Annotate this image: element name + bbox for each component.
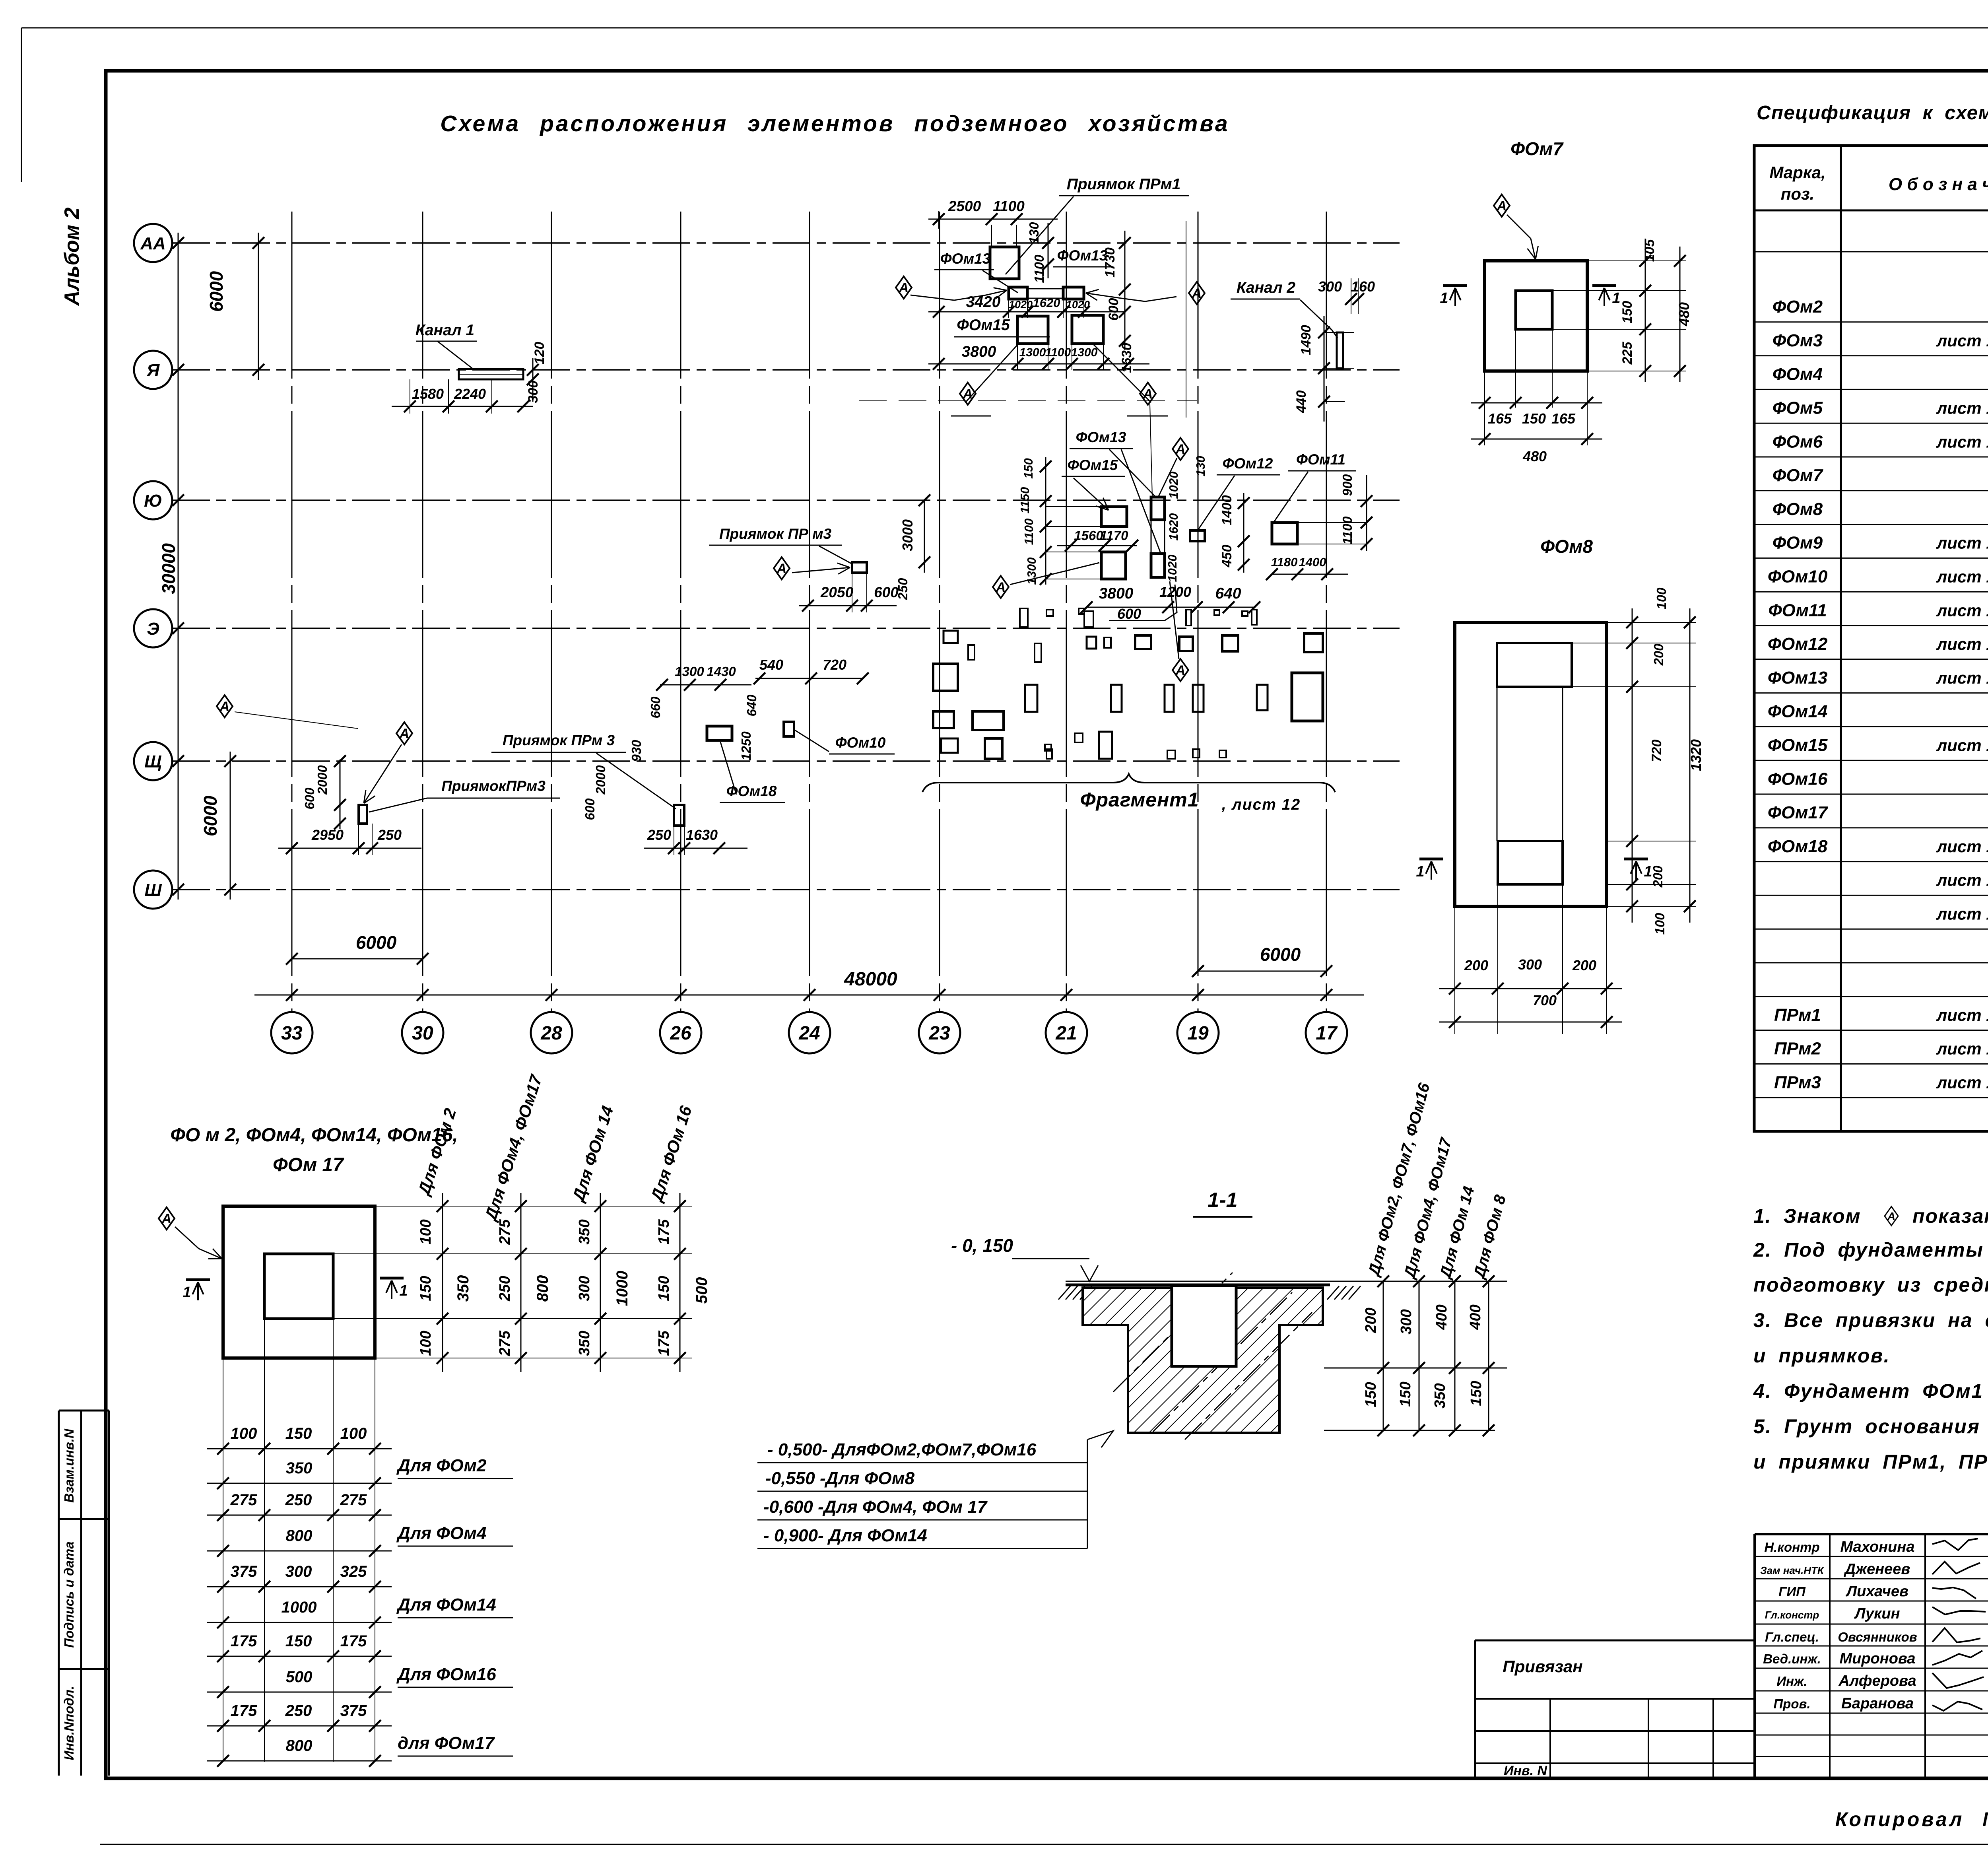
svg-text:Зам нач.НТК: Зам нач.НТК <box>1760 1564 1825 1576</box>
svg-text:2950: 2950 <box>311 827 344 843</box>
svg-text:- 0, 150: - 0, 150 <box>951 1235 1013 1256</box>
svg-text:лист 12: лист 12 <box>1936 398 1988 417</box>
ground line <box>1066 1281 1376 1282</box>
svg-text:350: 350 <box>286 1459 313 1477</box>
lower dim ladder <box>207 1448 392 1449</box>
svg-text:ФОм4: ФОм4 <box>1773 365 1823 384</box>
svg-text:275: 275 <box>230 1491 257 1509</box>
svg-text:лист 13: лист 13 <box>1936 736 1988 754</box>
svg-text:подготовку из среднезернисто: подготовку из среднезернистого песка тол… <box>1753 1274 1988 1296</box>
svg-text:2000: 2000 <box>315 765 330 795</box>
svg-text:Дженеев: Дженеев <box>1844 1561 1910 1578</box>
svg-text:300: 300 <box>285 1563 312 1580</box>
svg-text:А: А <box>996 580 1006 595</box>
privyazan box <box>1475 1640 1755 1642</box>
FOm15 foundations <box>1017 316 1048 344</box>
FOm7 inner pocket <box>1516 291 1552 329</box>
svg-text:1020: 1020 <box>1066 299 1090 311</box>
svg-text:930: 930 <box>629 740 644 762</box>
svg-text:1100: 1100 <box>1340 516 1355 545</box>
svg-text:Взам.инв.N: Взам.инв.N <box>62 1428 76 1503</box>
svg-text:- 0,900- Для ФОм14: - 0,900- Для ФОм14 <box>763 1526 927 1545</box>
column circles <box>271 1012 313 1053</box>
small foundation col26 <box>784 722 794 736</box>
svg-text:165: 165 <box>1488 410 1512 427</box>
svg-text:250: 250 <box>377 827 402 843</box>
svg-text:ФОм11: ФОм11 <box>1296 451 1345 468</box>
svg-text:105: 105 <box>1642 239 1657 262</box>
FOm8 inner top pocket <box>1497 643 1572 687</box>
svg-text:Канал 1: Канал 1 <box>415 322 474 339</box>
svg-text:200: 200 <box>1363 1308 1379 1333</box>
svg-text:Канал 2: Канал 2 <box>1237 279 1295 296</box>
svg-text:1560: 1560 <box>1074 528 1103 543</box>
svg-text:лист 16: лист 16 <box>1936 1039 1988 1058</box>
svg-text:Ю: Ю <box>144 491 162 511</box>
svg-text:ФОм13: ФОм13 <box>1057 247 1108 264</box>
svg-text:120: 120 <box>532 342 547 365</box>
svg-text:600: 600 <box>1106 298 1121 321</box>
svg-text:Спецификация к схеме располож: Спецификация к схеме расположения элемен… <box>1757 102 1988 124</box>
pocket outline <box>1172 1286 1236 1366</box>
bottom dimension 6000 right <box>1198 971 1326 972</box>
svg-text:Ш: Ш <box>144 880 162 900</box>
svg-text:ФОм12: ФОм12 <box>1223 455 1273 472</box>
svg-text:ПРм2: ПРм2 <box>1774 1039 1821 1059</box>
aux line at y1008 <box>859 400 1197 401</box>
svg-text:Инв.Nподл.: Инв.Nподл. <box>62 1686 76 1760</box>
svg-text:3000: 3000 <box>899 519 916 551</box>
svg-text:3420: 3420 <box>966 293 1001 311</box>
svg-text:Подпись и дата: Подпись и дата <box>62 1541 76 1648</box>
svg-text:Щ: Щ <box>144 752 162 771</box>
leaders to lower diamonds <box>965 344 1018 402</box>
svg-text:720: 720 <box>1649 740 1664 762</box>
svg-text:лист 12: лист 12 <box>1936 432 1988 451</box>
PRm3 pit col26 <box>674 805 684 826</box>
svg-text:400: 400 <box>1433 1304 1450 1330</box>
FOm8 right dims <box>1632 608 1633 923</box>
svg-text:ФОм15: ФОм15 <box>957 317 1010 334</box>
diamond A left <box>896 276 912 299</box>
svg-text:ФОм8: ФОм8 <box>1773 499 1823 519</box>
svg-text:3. Все привязки на схеме д: 3. Все привязки на схеме даны к внутренн… <box>1753 1309 1988 1331</box>
svg-text:Копировал Муратова: Копировал Муратова <box>1835 1808 1988 1830</box>
svg-text:1. Знаком: 1. Знаком <box>1753 1205 1861 1227</box>
svg-text:Гл.констр: Гл.констр <box>1765 1609 1819 1621</box>
svg-text:3800: 3800 <box>1099 585 1134 602</box>
fundament chain row <box>1009 287 1027 299</box>
svg-text:1730: 1730 <box>1103 247 1118 278</box>
svg-text:500: 500 <box>693 1277 711 1304</box>
svg-text:Инж.: Инж. <box>1776 1674 1807 1688</box>
svg-text:100: 100 <box>1652 913 1667 935</box>
svg-text:4. Фундамент ФОм1 разработан: 4. Фундамент ФОм1 разработан на листе 20… <box>1753 1380 1988 1402</box>
svg-text:1: 1 <box>1440 290 1448 307</box>
diamond A lower-right <box>1140 383 1156 405</box>
svg-text:Для ФОм14: Для ФОм14 <box>396 1595 496 1615</box>
detail inner pocket <box>264 1254 333 1319</box>
svg-text:24: 24 <box>798 1023 820 1044</box>
svg-text:150: 150 <box>656 1276 672 1301</box>
svg-text:1490: 1490 <box>1299 325 1314 355</box>
svg-text:Для ФОм2: Для ФОм2 <box>396 1456 487 1475</box>
svg-text:150: 150 <box>417 1276 434 1301</box>
diamond A below <box>1173 659 1188 681</box>
svg-text:ФОм2: ФОм2 <box>1773 297 1823 317</box>
svg-text:150: 150 <box>1021 458 1035 479</box>
svg-text:400: 400 <box>1467 1304 1484 1330</box>
svg-text:ФОм14: ФОм14 <box>1768 702 1828 721</box>
svg-text:150: 150 <box>285 1425 312 1442</box>
svg-text:1400: 1400 <box>1299 555 1326 569</box>
axis circles <box>134 224 172 262</box>
svg-text:150: 150 <box>1397 1381 1414 1407</box>
svg-text:-0,600 -Для ФОм4, ФОм 17: -0,600 -Для ФОм4, ФОм 17 <box>763 1497 988 1517</box>
svg-text:ФОм3: ФОм3 <box>1773 331 1823 350</box>
detail section marks <box>186 1278 210 1281</box>
FOm13 vertical chain <box>1151 497 1165 520</box>
svg-text:Лукин: Лукин <box>1854 1605 1900 1622</box>
leader arrows from A diamonds <box>911 295 986 300</box>
svg-text:1: 1 <box>399 1282 408 1299</box>
title block verticals <box>1753 1534 1756 1778</box>
svg-text:Фрагмент1: Фрагмент1 <box>1080 789 1199 811</box>
svg-text:Вед.инж.: Вед.инж. <box>1763 1652 1821 1666</box>
svg-text:А: А <box>161 1211 172 1226</box>
svg-text:28: 28 <box>540 1023 562 1044</box>
svg-text:48000: 48000 <box>844 969 897 990</box>
svg-text:1150: 1150 <box>1018 487 1032 514</box>
svg-text:ФОм8: ФОм8 <box>1540 536 1593 557</box>
svg-text:450: 450 <box>1219 545 1235 568</box>
svg-text:17: 17 <box>1316 1023 1338 1044</box>
svg-text:Лихачев: Лихачев <box>1845 1583 1908 1600</box>
svg-text:ФОм6: ФОм6 <box>1773 432 1823 451</box>
svg-text:лист 13: лист 13 <box>1936 567 1988 586</box>
svg-text:300: 300 <box>1518 956 1542 973</box>
svg-text:ПриямокПРм3: ПриямокПРм3 <box>441 778 546 794</box>
svg-text:600: 600 <box>1117 606 1141 622</box>
svg-text:О б о з н а ч е н и е: О б о з н а ч е н и е <box>1889 175 1988 194</box>
svg-text:800: 800 <box>534 1275 551 1302</box>
svg-text:1300: 1300 <box>1019 346 1046 359</box>
axis lines <box>172 242 1400 244</box>
title block top border <box>1755 1533 1988 1535</box>
svg-text:Альбом 2: Альбом 2 <box>60 208 83 307</box>
diamond A right <box>1189 282 1205 304</box>
svg-text:640: 640 <box>1215 585 1241 602</box>
svg-text:1300: 1300 <box>1071 346 1098 359</box>
svg-text:130: 130 <box>1194 456 1208 476</box>
svg-text:350: 350 <box>576 1219 593 1244</box>
svg-text:100: 100 <box>340 1425 367 1442</box>
signature rows <box>1755 1556 1988 1557</box>
svg-text:1-1: 1-1 <box>1208 1189 1237 1212</box>
svg-text:3800: 3800 <box>962 343 996 360</box>
specification table frame <box>1754 146 1988 1131</box>
FOm7 plan square <box>1485 261 1587 371</box>
svg-text:150: 150 <box>1620 301 1635 324</box>
svg-text:лист 12: лист 12 <box>1936 635 1988 653</box>
svg-text:Пров.: Пров. <box>1773 1696 1810 1711</box>
svg-text:6000: 6000 <box>206 271 227 312</box>
bottom dimension 6000 left <box>292 958 423 960</box>
svg-text:5. Грунт основания под фун: 5. Грунт основания под фундаменты под об… <box>1753 1415 1988 1438</box>
svg-text:- 0,500- ДляФОм2,ФОм7,ФОм16: - 0,500- ДляФОм2,ФОм7,ФОм16 <box>767 1440 1037 1459</box>
lower dim ladder verticals <box>223 1358 223 1762</box>
svg-text:Приямок ПР м3: Приямок ПР м3 <box>719 526 832 542</box>
svg-text:1430: 1430 <box>707 664 736 679</box>
svg-text:ФОм13: ФОм13 <box>1076 429 1126 445</box>
svg-text:Гл.спец.: Гл.спец. <box>1765 1630 1819 1644</box>
PRm3 pit col33 <box>359 805 367 824</box>
svg-text:250: 250 <box>285 1491 312 1509</box>
diamond A above chain <box>1150 404 1152 496</box>
left margin stamp boxes <box>59 1410 109 1412</box>
svg-text:250: 250 <box>647 827 671 843</box>
ground hatch left <box>1058 1286 1070 1300</box>
svg-text:1180: 1180 <box>1271 555 1298 569</box>
svg-text:130: 130 <box>1027 222 1041 244</box>
svg-text:500: 500 <box>286 1668 313 1686</box>
svg-text:100: 100 <box>417 1331 434 1356</box>
left vertical dimension 6000 Shch-Sh <box>230 752 231 900</box>
svg-text:275: 275 <box>497 1219 513 1245</box>
svg-text:1000: 1000 <box>282 1599 317 1616</box>
svg-text:300: 300 <box>576 1276 593 1301</box>
svg-text:ПРм1: ПРм1 <box>1774 1005 1821 1025</box>
svg-text:Для ФОм16: Для ФОм16 <box>396 1665 496 1684</box>
svg-text:175: 175 <box>340 1632 367 1650</box>
svg-text:ФОм7: ФОм7 <box>1510 138 1564 159</box>
svg-text:Марка,: Марка, <box>1769 163 1825 182</box>
svg-text:1630: 1630 <box>1119 343 1134 373</box>
sheet outer thin border <box>21 27 1988 29</box>
svg-text:200: 200 <box>1572 957 1596 973</box>
Kanal 1 dimensions <box>392 406 533 407</box>
svg-text:и приямки ПРм1, ПРм3 уплотн: и приямки ПРм1, ПРм3 уплотнить до Кск = … <box>1753 1451 1988 1473</box>
svg-text:1100: 1100 <box>993 198 1025 214</box>
svg-text:1020: 1020 <box>1009 299 1033 311</box>
svg-text:Н.контр: Н.контр <box>1764 1540 1819 1554</box>
dimension 2500 1100 <box>928 219 1058 220</box>
svg-text:175: 175 <box>656 1219 672 1244</box>
svg-text:Овсянников: Овсянников <box>1838 1630 1917 1644</box>
svg-text:А: А <box>899 280 909 295</box>
svg-text:480: 480 <box>1676 302 1692 326</box>
svg-text:640: 640 <box>744 694 759 717</box>
svg-text:поз.: поз. <box>1781 185 1814 203</box>
svg-text:350: 350 <box>1432 1383 1448 1408</box>
svg-text:А: А <box>963 387 973 402</box>
svg-text:26: 26 <box>670 1023 691 1044</box>
svg-text:Махонина: Махонина <box>1840 1539 1915 1555</box>
svg-text:23: 23 <box>928 1023 950 1044</box>
svg-text:200: 200 <box>1650 865 1665 888</box>
svg-text:АА: АА <box>140 234 166 253</box>
svg-text:ФОм11: ФОм11 <box>1768 600 1827 620</box>
svg-text:Приямок ПРм1: Приямок ПРм1 <box>1067 176 1181 193</box>
FOm7 extension lines <box>1515 329 1516 408</box>
svg-text:375: 375 <box>231 1563 257 1580</box>
section right dims <box>1324 1368 1507 1369</box>
Fragment 1 brace <box>922 774 1335 792</box>
FOm7 bottom dims <box>1471 402 1602 404</box>
Priyamok PRm1 pit <box>990 247 1019 279</box>
svg-text:1320: 1320 <box>1688 739 1704 771</box>
svg-text:165: 165 <box>1551 410 1576 427</box>
svg-text:1300: 1300 <box>675 664 704 679</box>
svg-text:ФОм15: ФОм15 <box>1768 735 1828 755</box>
svg-text:А: А <box>1175 442 1186 457</box>
svg-text:350: 350 <box>576 1331 593 1356</box>
svg-text:2000: 2000 <box>593 765 608 795</box>
svg-text:1250: 1250 <box>739 731 753 761</box>
svg-text:150: 150 <box>285 1632 312 1650</box>
svg-text:лист 13: лист 13 <box>1936 837 1988 856</box>
svg-text:160: 160 <box>1351 278 1375 295</box>
svg-text:720: 720 <box>823 657 846 673</box>
svg-text:А: А <box>1143 387 1153 402</box>
svg-text:175: 175 <box>231 1632 257 1650</box>
FOm8 inner verticals <box>1497 687 1498 841</box>
svg-text:ФОм10: ФОм10 <box>835 734 886 751</box>
FOm8 plan rectangle <box>1455 622 1607 906</box>
diamond A col24 <box>774 557 790 579</box>
svg-text:ГИП: ГИП <box>1778 1584 1806 1599</box>
svg-text:175: 175 <box>231 1702 257 1720</box>
svg-text:2. Под фундаменты под обор: 2. Под фундаменты под оборудование выпол… <box>1753 1239 1988 1261</box>
specification table rows <box>1754 321 1988 323</box>
column lines <box>291 212 293 1011</box>
svg-text:600: 600 <box>874 584 899 600</box>
Kanal 2 channel bar <box>1337 332 1343 368</box>
svg-text:Привязан: Привязан <box>1503 1657 1582 1676</box>
detail diamond A <box>159 1207 175 1230</box>
svg-text:250: 250 <box>895 578 910 600</box>
svg-text:21: 21 <box>1055 1023 1077 1044</box>
svg-text:2500: 2500 <box>948 198 981 214</box>
dimension 3800 row <box>928 363 1149 365</box>
svg-text:150: 150 <box>1363 1382 1379 1407</box>
svg-text:300: 300 <box>1398 1309 1415 1334</box>
svg-text:Э: Э <box>147 619 159 639</box>
svg-text:175: 175 <box>656 1330 672 1356</box>
svg-text:150: 150 <box>1468 1381 1485 1406</box>
svg-text:800: 800 <box>286 1737 313 1754</box>
svg-text:33: 33 <box>281 1023 303 1044</box>
svg-text:лист 15: лист 15 <box>1936 1006 1988 1024</box>
svg-text:2050: 2050 <box>820 584 854 600</box>
svg-text:440: 440 <box>1294 391 1309 414</box>
svg-text:375: 375 <box>340 1702 367 1720</box>
svg-text:700: 700 <box>1533 992 1557 1008</box>
svg-text:1100: 1100 <box>1022 519 1036 545</box>
svg-text:1170: 1170 <box>1100 528 1129 543</box>
svg-text:ФОм7: ФОм7 <box>1773 466 1824 485</box>
FOm15 mid foundations <box>1101 507 1127 527</box>
left vertical dimension 6000 AA-Ya <box>258 233 259 380</box>
bottom dimension 48000 <box>254 995 1364 996</box>
svg-text:275: 275 <box>497 1330 513 1356</box>
svg-text:А: А <box>1175 663 1186 678</box>
svg-text:лист 12: лист 12 <box>1936 534 1988 552</box>
svg-text:100: 100 <box>231 1425 257 1442</box>
svg-text:ФОм12: ФОм12 <box>1768 634 1828 654</box>
svg-text:600: 600 <box>582 798 597 820</box>
dim 3800 1200 640 600 row <box>1087 607 1254 608</box>
svg-text:1580: 1580 <box>412 386 444 402</box>
svg-text:1: 1 <box>1416 863 1424 880</box>
svg-text:350: 350 <box>454 1275 472 1302</box>
left vertical dimension 30000 <box>178 233 179 900</box>
svg-text:ФОм13: ФОм13 <box>1768 668 1828 688</box>
svg-text:лист 16: лист 16 <box>1936 1073 1988 1092</box>
svg-text:А: А <box>1192 286 1202 301</box>
svg-text:А: А <box>1887 1210 1895 1222</box>
svg-text:200: 200 <box>1651 643 1666 666</box>
svg-text:показана ориентация фундаме: показана ориентация фундаментов и приямк… <box>1912 1205 1988 1227</box>
svg-text:2240: 2240 <box>454 386 486 402</box>
svg-text:ПРм3: ПРм3 <box>1774 1073 1821 1092</box>
svg-text:30000: 30000 <box>158 543 179 594</box>
svg-text:1000: 1000 <box>613 1271 631 1306</box>
svg-text:Приямок ПРм 3: Приямок ПРм 3 <box>503 732 615 748</box>
svg-text:ФОм10: ФОм10 <box>1768 567 1828 586</box>
FOm8 inner bottom pocket <box>1498 841 1563 884</box>
svg-text:для ФОм17: для ФОм17 <box>398 1733 495 1753</box>
svg-text:ФОм 17: ФОм 17 <box>273 1154 344 1175</box>
svg-text:540: 540 <box>759 657 783 673</box>
FOm18 foundation bar <box>707 726 732 740</box>
svg-text:1020: 1020 <box>1165 555 1179 582</box>
svg-text:800: 800 <box>286 1527 313 1545</box>
svg-text:ФОм5: ФОм5 <box>1773 398 1823 418</box>
diamond A lower-left <box>960 383 976 405</box>
svg-text:Миронова: Миронова <box>1839 1650 1915 1667</box>
svg-text:ФО м 2, ФОм4, ФОм14, ФОм16,: ФО м 2, ФОм4, ФОм14, ФОм16, <box>170 1125 458 1146</box>
FOm12 foundation <box>1190 530 1205 541</box>
svg-text:660: 660 <box>648 696 663 719</box>
svg-text:900: 900 <box>1340 474 1355 496</box>
svg-text:Баранова: Баранова <box>1841 1695 1914 1712</box>
svg-text:325: 325 <box>340 1563 367 1580</box>
svg-text:275: 275 <box>340 1491 367 1509</box>
diamond A chain-right <box>1173 438 1188 460</box>
svg-text:А: А <box>1497 198 1507 214</box>
svg-text:6000: 6000 <box>356 932 397 953</box>
ground hatch right <box>1327 1286 1339 1300</box>
svg-text:1100: 1100 <box>1045 346 1071 359</box>
svg-text:19: 19 <box>1187 1023 1209 1044</box>
dimension 3420 row <box>928 311 1125 313</box>
svg-text:ФОм17: ФОм17 <box>1768 803 1829 822</box>
svg-text:лист 12: лист 12 <box>1936 331 1988 350</box>
FOm8 bottom dims <box>1439 988 1622 989</box>
foundation section with hatching <box>1083 1288 1323 1433</box>
FOm7 section marks <box>1443 284 1467 287</box>
Kanal 1 channel bar <box>459 369 523 379</box>
PRm3 pit col24 <box>852 562 867 573</box>
svg-text:250: 250 <box>285 1702 312 1720</box>
svg-text:Инв. N: Инв. N <box>1504 1763 1547 1778</box>
svg-text:, лист 12: , лист 12 <box>1221 796 1301 813</box>
svg-text:1400: 1400 <box>1219 495 1235 525</box>
svg-text:1630: 1630 <box>686 827 718 843</box>
svg-text:100: 100 <box>1654 587 1669 610</box>
scattered equipment foundations <box>1020 608 1028 627</box>
